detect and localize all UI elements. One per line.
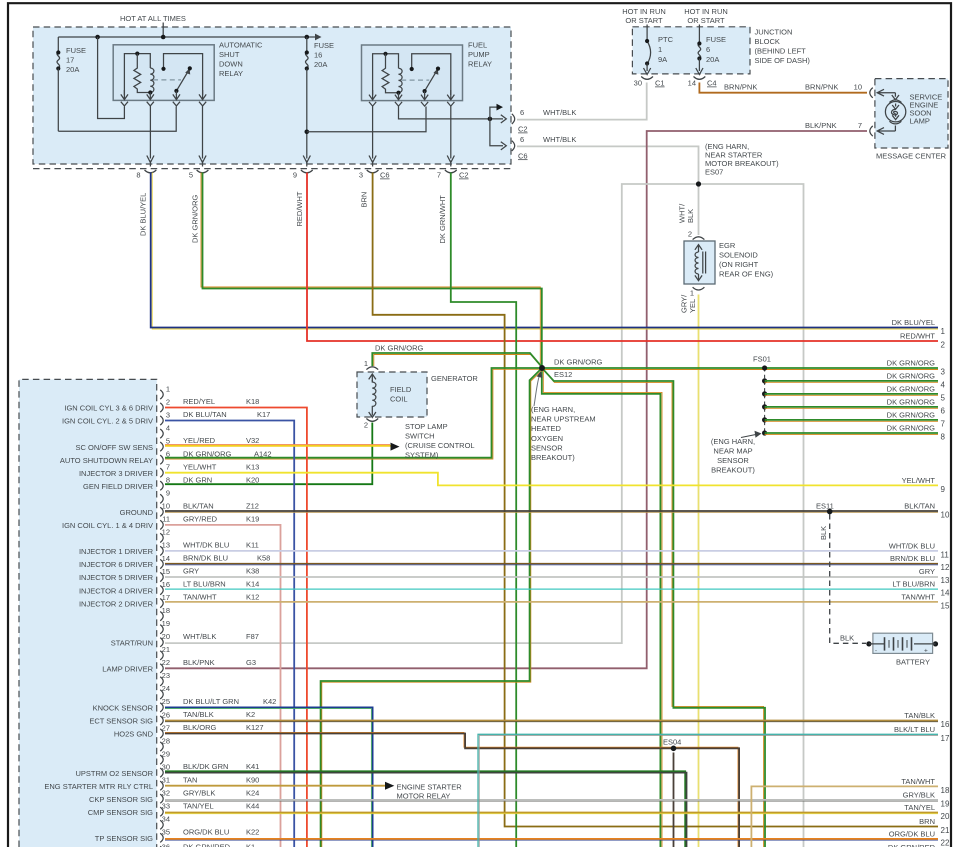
svg-text:DK GRN: DK GRN [183,475,212,484]
svg-text:DOWN: DOWN [219,60,243,69]
junction block shaded box [632,27,750,74]
PCM pin 36 connector [160,846,163,847]
PCM shaded box [19,379,157,847]
ASD internal: rail dot [135,52,139,56]
node: bus-label dot [161,35,166,40]
ASD terminal arrows at box bottom [121,90,128,100]
svg-text:BLK/PNK: BLK/PNK [183,658,215,667]
wire DK GRN/ORG pin5 to ES12 [203,173,542,368]
svg-text:K14: K14 [246,580,259,589]
svg-text:2: 2 [166,397,170,406]
svg-text:DK GRN/ORG: DK GRN/ORG [887,398,936,407]
ASD internal: switch rail [164,54,203,95]
svg-text:FUSE: FUSE [706,35,726,44]
FP internal: switch rail [412,54,451,95]
splice node ES07 [696,181,701,186]
svg-text:K44: K44 [246,801,259,810]
PCM pin 17 connector [160,599,163,608]
wire DK BLU/LT GRN pin25 to bottom [165,707,373,847]
svg-text:OR START: OR START [687,16,725,25]
svg-text:DK GRN/ORG: DK GRN/ORG [887,359,936,368]
wire ORG/DK BLU pin35 to right edge row 22 [165,838,938,840]
svg-text:RED/WHT: RED/WHT [900,332,935,341]
fuse17 bottom lead [57,69,59,132]
svg-text:9A: 9A [658,55,667,64]
svg-text:AUTOMATIC: AUTOMATIC [219,41,263,50]
svg-text:INJECTOR 4 DRIVER: INJECTOR 4 DRIVER [79,586,154,595]
wire: top power bus [58,36,316,38]
wire DK GRN/ORG ES12 branch E [542,368,661,847]
svg-text:30: 30 [162,762,170,771]
svg-text:20A: 20A [314,60,327,69]
svg-text:WHT/BLK: WHT/BLK [543,108,576,117]
svg-text:OXYGEN: OXYGEN [531,434,563,443]
svg-text:SIDE OF DASH): SIDE OF DASH) [755,56,811,65]
svg-text:K42: K42 [263,697,276,706]
wire DK GRN/ORG row 3 ES12 to right edge (orange stripe) [543,369,939,371]
EGR bottom connector cup [693,287,705,290]
svg-text:HEATED: HEATED [531,424,561,433]
fuse F16 top lead [306,37,308,52]
svg-text:YEL: YEL [688,299,697,313]
svg-text:(CRUISE CONTROL: (CRUISE CONTROL [405,441,475,450]
fuse 6 connector cup [694,77,706,80]
svg-text:WHT/BLK: WHT/BLK [183,632,216,641]
relay: FUEL PUMP RELAY box [362,45,463,101]
generator top arrow into coil [369,374,376,382]
PCM pin 19 connector [160,625,163,634]
PCM pin 13 connector [160,546,163,555]
svg-text:2: 2 [364,421,368,430]
svg-text:FS01: FS01 [753,355,771,364]
connector cups at PDC pins [145,170,157,173]
PCM pin 11 connector [160,520,163,529]
PDC shaded area [33,27,511,164]
svg-text:3: 3 [359,171,363,180]
wire DK GRN/ORG row 6 to right edge [765,406,938,408]
svg-text:14: 14 [162,554,170,563]
svg-text:COIL: COIL [390,395,408,404]
svg-text:G3: G3 [246,658,256,667]
svg-text:HOT AT ALL TIMES: HOT AT ALL TIMES [120,14,186,23]
svg-text:JUNCTION: JUNCTION [755,28,793,37]
PCM dashed border [19,379,157,847]
svg-text:IGN COIL CYL. 2 & 5 DRIV: IGN COIL CYL. 2 & 5 DRIV [62,417,153,426]
svg-text:4: 4 [166,423,170,432]
PCM pin 30 connector [160,768,163,777]
wire DK GRN/ORG ES12 branch D [542,368,765,847]
svg-text:BRN/PNK: BRN/PNK [724,83,757,92]
svg-text:GRY: GRY [919,567,935,576]
svg-text:EGR: EGR [719,241,736,250]
PDC connector second dashed line [33,168,511,170]
svg-text:DK GRN/ORG: DK GRN/ORG [887,385,936,394]
svg-text:TP SENSOR SIG: TP SENSOR SIG [95,834,153,843]
svg-text:19: 19 [941,800,950,809]
svg-text:DK GRN/RED: DK GRN/RED [888,843,936,847]
wire ASD T2 to pin 8 [149,106,151,159]
lamp pin 10 internal lead with arrow [877,89,895,96]
wire DK GRN/ORG ES12 to PCM pin 6 (orange stripe) [165,369,542,459]
svg-text:TAN/BLK: TAN/BLK [183,710,214,719]
FP internal: armature [425,72,437,91]
battery box [873,633,933,653]
svg-text:ES07: ES07 [705,168,723,177]
field coil dashed box [357,372,427,417]
PCM pin 23 connector [160,677,163,686]
PCM pin 26 connector [160,716,163,725]
wire DK GRN/ORG row 7 to right edge (orange stripe) [765,420,938,422]
svg-text:RED/WHT: RED/WHT [295,191,304,226]
svg-text:MESSAGE CENTER: MESSAGE CENTER [876,152,947,161]
wire BLK/ORG pin27 to ES04 [165,734,739,847]
wire DK GRN/ORG ES12 branch E (orange stripe) [543,368,662,847]
svg-text:29: 29 [162,749,170,758]
wire DK GRN/ORG ES12 to PCM pin 6 [165,368,542,458]
svg-text:BLK/TAN: BLK/TAN [183,501,214,510]
tick from label to bus [162,23,164,38]
svg-text:K58: K58 [257,554,270,563]
battery terminal dots [866,641,871,646]
svg-text:13: 13 [162,541,170,550]
wire TAN pin31 to starter relay arrow [165,785,386,787]
svg-text:3: 3 [941,368,946,377]
svg-text:7: 7 [166,463,170,472]
svg-text:+: + [924,648,928,655]
svg-text:(ENG HARN,: (ENG HARN, [711,437,755,446]
svg-text:(BEHIND LEFT: (BEHIND LEFT [755,47,807,56]
wire BLK dashed ES11 to battery [830,514,866,643]
wire LT BLU/BRN pin16 to right edge row 14 [165,588,938,590]
PCM pin 22 connector [160,664,163,673]
svg-text:23: 23 [162,671,170,680]
PCM pin 20 connector [160,638,163,647]
svg-text:6: 6 [941,407,946,416]
C6 open arrow [501,142,507,150]
svg-text:DK GRN/RED: DK GRN/RED [183,843,231,847]
svg-text:BLK/PNK: BLK/PNK [805,121,837,130]
svg-text:8: 8 [136,171,140,180]
svg-text:20: 20 [162,632,170,641]
svg-text:-: - [875,649,877,655]
svg-text:F87: F87 [246,632,259,641]
wire YEL/RED pin5 to stop lamp switch [165,445,391,447]
wire YEL/WHT pin7 to right edge row 9 [165,473,938,486]
FP internal: T1 rail [373,54,399,95]
FP internal: dashed link [401,79,429,81]
node: bus-fuse16 dot [305,35,310,40]
wire TAN/WHT pin17 to right edge row 15 [165,601,938,603]
wire TAN/WHT row 18 from bottom to right edge [751,786,938,847]
svg-text:PTC: PTC [658,35,674,44]
wire DK GRN/ORG pin5 to ES12 (orange stripe) [201,173,540,368]
message center shaded box [875,79,948,148]
wire BRN pin3 to right edge row 21 [373,173,938,827]
svg-text:K41: K41 [246,762,259,771]
node: bus-ASD feed dot [95,35,100,40]
svg-text:K24: K24 [246,788,259,797]
svg-text:CKP SENSOR SIG: CKP SENSOR SIG [89,795,153,804]
svg-text:Z12: Z12 [246,501,259,510]
svg-text:BLOCK: BLOCK [755,37,780,46]
svg-text:(ENG HARN,: (ENG HARN, [531,405,575,414]
svg-text:V32: V32 [246,436,259,445]
PCM pin 5 connector [160,442,163,451]
svg-text:BLK/LT BLU: BLK/LT BLU [894,725,935,734]
PCM pin 12 connector [160,533,163,542]
svg-text:30: 30 [634,79,642,88]
wire WHT/BLK ES07 right arm to bottom [699,184,804,847]
svg-text:AUTO SHUTDOWN RELAY: AUTO SHUTDOWN RELAY [60,456,153,465]
svg-text:SWITCH: SWITCH [405,432,435,441]
svg-text:C4: C4 [707,79,717,88]
wire DK BLU/YEL pin8 to right edge row 1 [151,173,938,328]
PCM pin 10 connector [160,507,163,516]
wire WHT/BLK C2-6 to PTC 30 [517,83,647,120]
svg-text:7: 7 [858,121,862,130]
wire DK GRN/ORG row 5 to right edge (orange stripe) [765,394,938,396]
svg-text:34: 34 [162,815,170,824]
svg-text:ES11: ES11 [816,502,834,511]
PCM pin 6 connector [160,455,163,464]
svg-text:ENGINE STARTER: ENGINE STARTER [397,782,463,791]
svg-text:17: 17 [941,734,950,743]
FP internal: coil bottom node [396,91,400,95]
C2 connector arc [512,114,515,124]
svg-text:GRY/BLK: GRY/BLK [183,788,215,797]
svg-text:ENG STARTER MTR RLY CTRL: ENG STARTER MTR RLY CTRL [44,782,153,791]
svg-text:33: 33 [162,802,170,811]
svg-text:1: 1 [690,289,694,298]
svg-text:DK BLU/TAN: DK BLU/TAN [183,410,227,419]
svg-text:TAN/YEL: TAN/YEL [904,803,935,812]
wire GRY/BLK pin32 to right edge row 19 (black stripe) [165,800,938,802]
svg-text:K17: K17 [257,410,270,419]
ASD terminal chevrons below box [121,102,128,106]
svg-text:DK BLU/YEL: DK BLU/YEL [139,193,148,236]
wire fuse17 to ASD T3 [58,107,176,132]
wire GRY/BLK pin32 to right edge row 19 [165,799,938,801]
wire BRN/DK BLU pin14 to right edge row 12 [165,563,938,565]
svg-text:K11: K11 [246,541,259,550]
svg-text:SOLENOID: SOLENOID [719,251,758,260]
svg-text:24: 24 [162,684,170,693]
svg-text:22: 22 [941,839,950,847]
wire DK GRN/ORG row 3 ES12 to right edge [542,367,938,369]
PCM pin 27 connector [160,729,163,738]
wire DK GRN/ORG ES12 branch F (orange stripe) [322,370,543,847]
svg-text:17: 17 [162,593,170,602]
svg-text:K22: K22 [246,827,259,836]
wire FP T2 to C2 connector [399,106,504,119]
svg-text:PUMP: PUMP [468,50,490,59]
PCM pin 15 connector [160,572,163,581]
svg-text:C2: C2 [518,125,528,134]
fuse 6 lead from label [698,25,700,44]
svg-text:18: 18 [162,606,170,615]
PCM pin 31 connector [160,781,163,790]
PCM pin 28 connector [160,742,163,751]
wire DK BLU/TAN pin3 to bottom [165,421,294,847]
svg-text:K38: K38 [246,567,259,576]
wire DK GRN/ORG row 4 to right edge [765,380,938,382]
svg-text:YEL/RED: YEL/RED [183,436,216,445]
svg-text:18: 18 [941,786,950,795]
svg-text:DK GRN/ORG: DK GRN/ORG [887,411,936,420]
svg-text:6: 6 [520,135,524,144]
fuse16 bottom lead to pin 9 [306,69,308,159]
svg-text:15: 15 [162,567,170,576]
svg-text:GROUND: GROUND [120,508,154,517]
svg-text:DK GRN/ORG: DK GRN/ORG [375,344,424,353]
svg-text:BATTERY: BATTERY [896,658,930,667]
wire BLK/PNK lamp to PCM pin 22 [165,131,867,668]
svg-text:TAN/WHT: TAN/WHT [901,592,935,601]
svg-text:2: 2 [688,230,692,239]
svg-text:C2: C2 [459,171,469,180]
svg-text:12: 12 [941,563,950,572]
svg-text:TAN: TAN [183,775,197,784]
svg-text:NEAR MAP: NEAR MAP [713,447,752,456]
wire WHT/BLK ES07 left arm to PCM pin 20 [165,184,699,643]
svg-text:BRN/PNK: BRN/PNK [805,83,838,92]
svg-text:K18: K18 [246,397,259,406]
svg-text:WHT/DK BLU: WHT/DK BLU [889,541,935,550]
wire DK GRN/ORG row 7 to right edge [765,419,938,421]
svg-text:TAN/BLK: TAN/BLK [904,711,935,720]
branch arrow up-right [490,107,498,119]
wire DK BLU/YEL pin8 to right edge row 1 (yellow stripe) [152,173,938,330]
svg-text:11: 11 [941,550,950,559]
svg-text:14: 14 [941,589,950,598]
svg-text:CMP SENSOR SIG: CMP SENSOR SIG [88,808,153,817]
ASD internal: armature [176,72,188,91]
svg-text:WHT/DK BLU: WHT/DK BLU [183,541,229,550]
svg-text:IGN COIL CYL 3 & 6 DRIV: IGN COIL CYL 3 & 6 DRIV [64,404,153,413]
wire DK GRN/WHT pin7 to bottom [451,173,516,847]
svg-text:BRN: BRN [360,192,369,208]
wire RED/YEL pin2 to bottom [165,408,307,847]
svg-text:7: 7 [437,171,441,180]
node FS01 dot row 5 [762,391,767,396]
arrow to stop lamp switch [391,443,400,451]
svg-text:2: 2 [941,341,946,350]
svg-text:GEN FIELD DRIVER: GEN FIELD DRIVER [83,482,154,491]
wire YEL/RED pin5 to stop lamp switch (red stripe) [165,443,390,445]
svg-text:21: 21 [162,645,170,654]
PCM pin 35 connector [160,833,163,842]
svg-text:C6: C6 [518,151,528,160]
svg-text:K19: K19 [246,515,259,524]
svg-text:DK BLU/LT GRN: DK BLU/LT GRN [183,697,239,706]
PCM pin 18 connector [160,612,163,621]
svg-text:13: 13 [941,576,950,585]
wire BLK/ORG pin27 to ES04 (orange stripe) [165,732,738,847]
wire BLK ES04 to bottom [673,753,675,847]
wire GRY pin15 to right edge row 13 [165,576,938,578]
wire fuse16 to FP T3 [307,107,426,132]
svg-text:17: 17 [66,56,74,65]
svg-text:7: 7 [941,420,946,429]
ASD internal: resistor zigzag [134,54,150,93]
fuse 6 bottom arrow [696,59,703,75]
svg-text:10: 10 [941,511,950,520]
svg-text:IGN COIL CYL. 1 & 4 DRIV: IGN COIL CYL. 1 & 4 DRIV [62,521,153,530]
svg-text:11: 11 [162,515,170,524]
svg-text:FUEL: FUEL [468,41,487,50]
C2 open arrow [501,115,507,123]
wire GRY/YEL EGR to bottom [698,295,700,847]
svg-text:BLK/DK GRN: BLK/DK GRN [183,762,228,771]
PTC 1 lead from label [646,25,648,42]
fuse F17 top lead [57,37,59,52]
svg-text:INJECTOR 1 DRIVER: INJECTOR 1 DRIVER [79,547,154,556]
svg-text:8: 8 [166,476,170,485]
svg-text:27: 27 [162,723,170,732]
wire DK GRN/ORG row 4 to right edge (orange stripe) [765,381,938,383]
wire DK GRN/ORG row 8 to right edge [765,432,938,434]
PCM pin 16 connector [160,586,163,595]
ASD internal: coil bottom node [148,90,152,94]
svg-text:6: 6 [520,108,524,117]
PCM pin 1 connector [160,390,163,399]
breaker PTC 1 element [647,41,651,64]
lamp pin 10 connector arc [870,88,873,98]
svg-text:STOP LAMP: STOP LAMP [405,422,448,431]
svg-text:START/RUN: START/RUN [111,638,153,647]
svg-text:INJECTOR 6 DRIVER: INJECTOR 6 DRIVER [79,560,154,569]
EGR coil element [695,245,702,252]
arrow to engine starter motor relay [385,782,394,790]
fuse 17 element [57,52,60,68]
svg-text:SYSTEM): SYSTEM) [405,451,439,460]
lamp bottom cup [889,121,901,124]
svg-text:10: 10 [854,83,862,92]
svg-text:1: 1 [364,359,368,368]
node FS01 dot row 6 [762,404,767,409]
PTC bottom arrow [644,64,651,75]
ASD internal: T1 rail [124,54,150,95]
generator pin1 connector cup [366,367,378,370]
svg-text:OR START: OR START [625,16,663,25]
svg-text:FUSE: FUSE [314,41,334,50]
svg-text:BLK/ORG: BLK/ORG [183,723,217,732]
svg-text:UPSTRM O2 SENSOR: UPSTRM O2 SENSOR [75,769,153,778]
svg-text:19: 19 [162,619,170,628]
wire ASD T4 to pin 5 [202,106,204,159]
svg-text:16: 16 [314,51,322,60]
svg-text:YEL/WHT: YEL/WHT [902,476,936,485]
EGR core bars [702,252,704,274]
svg-text:ORG/DK BLU: ORG/DK BLU [889,830,935,839]
PTC connector cup [641,77,653,80]
svg-text:INJECTOR 3 DRIVER: INJECTOR 3 DRIVER [79,469,154,478]
node FP T2 branch dot [488,117,493,122]
svg-text:INJECTOR 2 DRIVER: INJECTOR 2 DRIVER [79,599,154,608]
svg-text:21: 21 [941,826,950,835]
PCM pin 3 connector [160,416,163,425]
lamp SERVICE ENGINE SOON [885,102,905,122]
svg-text:BLK: BLK [819,526,828,540]
svg-text:1: 1 [166,384,170,393]
svg-text:BRN/DK BLU: BRN/DK BLU [183,554,228,563]
svg-text:20A: 20A [66,65,79,74]
svg-text:25: 25 [162,697,170,706]
wire BLK/DK GRN pin30 to bottom [165,773,687,847]
fuse 16 element [306,52,309,68]
svg-text:K2: K2 [246,710,255,719]
splice node ES11 [827,509,833,515]
